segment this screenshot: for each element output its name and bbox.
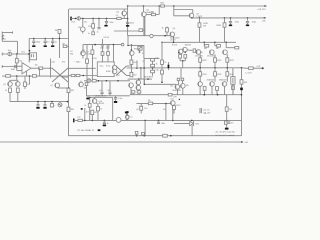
transistor Q20 <box>129 83 134 88</box>
svg-text:Q3: Q3 <box>117 75 120 77</box>
resistor R56 <box>140 106 143 110</box>
resistor R28a <box>179 55 182 59</box>
wire v1451 <box>144 120 146 135</box>
node bl3 <box>104 120 106 122</box>
svg-text:1N4148: 1N4148 <box>62 77 69 79</box>
wire bias top <box>128 44 144 46</box>
node b2 <box>28 53 30 55</box>
wire q6 down <box>191 17 193 19</box>
capacitor C11 <box>14 65 16 68</box>
transistor Q10 driver <box>178 49 183 54</box>
wire v15 riser <box>102 39 104 45</box>
capacitor C22 <box>103 120 105 121</box>
wire opamp feed <box>68 67 96 69</box>
wire mid rail <box>127 67 182 69</box>
wire drvb5 <box>182 88 184 95</box>
resistor R43 <box>181 78 184 81</box>
node bl2 <box>92 120 94 122</box>
resistor R12 <box>107 52 110 56</box>
ground gnd2 <box>127 24 129 25</box>
node o2 <box>214 42 216 44</box>
svg-text:0R22: 0R22 <box>217 74 221 76</box>
wire xdiff stub2 <box>116 66 127 76</box>
svg-text:-VE +VE: -VE +VE <box>203 112 211 114</box>
wire op drop <box>50 59 52 78</box>
svg-text:1k: 1k <box>84 105 86 107</box>
transistor Q7 <box>112 65 117 70</box>
svg-text:100n: 100n <box>110 22 114 24</box>
wire pe2 <box>214 68 216 72</box>
wire q25 col <box>89 98 91 121</box>
capacitor C27c <box>125 115 128 117</box>
capacitor C27 blob <box>126 111 128 113</box>
wire q8 down <box>173 37 175 43</box>
transistor Q6 servo <box>189 13 194 18</box>
wire r12 d <box>107 55 109 62</box>
wire rb col <box>226 95 228 128</box>
svg-text:1n: 1n <box>55 41 57 43</box>
node blr <box>226 120 228 122</box>
svg-text:C2073: C2073 <box>175 105 180 107</box>
wire mid bus <box>84 80 130 82</box>
transistor Q12 <box>196 50 201 55</box>
svg-text:2k2: 2k2 <box>134 74 137 76</box>
wire pb1 <box>204 86 206 88</box>
wire ob2 <box>214 42 216 46</box>
node r65n <box>59 38 61 40</box>
svg-text:1k: 1k <box>164 62 166 64</box>
node h1 <box>33 38 35 40</box>
wire r17 stub <box>166 32 168 36</box>
svg-text:1n: 1n <box>47 41 49 43</box>
node gb1 <box>37 101 39 103</box>
svg-text:+VE: +VE <box>262 20 267 22</box>
capacitor C7 <box>32 40 35 42</box>
capacitor C1 series <box>77 17 80 20</box>
resistor R27 <box>161 70 164 74</box>
component X2 <box>92 32 95 35</box>
resistor R17 <box>166 28 169 32</box>
resistor R1 series bead <box>117 17 121 19</box>
wire j1 top <box>5 32 13 34</box>
resistor R54 <box>91 110 94 114</box>
node bl4 <box>144 120 146 122</box>
svg-text:1n: 1n <box>88 33 90 35</box>
resistor R22 <box>151 70 155 73</box>
node mr2 <box>140 67 142 69</box>
wire r2 drop2 <box>92 28 94 31</box>
wire cm out <box>144 83 176 85</box>
wire servo left <box>173 6 175 16</box>
terminal bal+ <box>1 53 3 56</box>
svg-text:2u2: 2u2 <box>77 117 80 119</box>
wire opamp in <box>43 67 51 69</box>
wire lcol <box>86 45 88 83</box>
wire gnd bus <box>86 95 130 97</box>
node biasr <box>127 45 128 46</box>
resistor R20 <box>151 59 155 62</box>
wire gb c1 <box>37 102 39 105</box>
node in2 <box>82 18 84 20</box>
capacitor C5 <box>229 20 232 22</box>
wire gnd bus2 <box>10 101 68 103</box>
transistor Q18 <box>175 85 180 90</box>
wire c3 drop <box>106 18 108 21</box>
svg-text:1W: 1W <box>203 26 206 28</box>
resistor R33 <box>214 58 217 62</box>
wire h33 drop <box>165 104 167 121</box>
wire bias bottom <box>130 54 132 56</box>
wire v845 <box>84 108 86 120</box>
resistor Rm1 <box>131 91 135 93</box>
svg-text:100n: 100n <box>235 22 239 24</box>
transistor Q13 <box>210 50 215 55</box>
wire oe1 <box>199 54 201 58</box>
wire drvb <box>180 68 182 78</box>
wire hc2 <box>44 39 46 41</box>
wire cm stub2 <box>130 88 132 95</box>
wire r11 d <box>102 55 104 62</box>
node cs1 <box>16 75 18 77</box>
svg-text:0R22: 0R22 <box>229 60 233 62</box>
node or4 <box>241 67 243 69</box>
capacitor C10 electrolytic <box>8 52 12 56</box>
resistor R51 <box>97 107 100 111</box>
svg-text:10u: 10u <box>129 116 132 118</box>
transistor Q4 mute <box>122 11 127 16</box>
capacitor C9 <box>51 40 54 42</box>
svg-text:MJ2955: MJ2955 <box>185 45 191 47</box>
wire cd2 drop <box>247 18 249 21</box>
svg-text:1k5: 1k5 <box>144 108 147 110</box>
node y357a <box>164 35 166 37</box>
wire cs drop <box>16 76 18 80</box>
wire drv base out <box>187 49 192 51</box>
capacitor C23 <box>158 120 160 121</box>
svg-text:MJE15030: MJE15030 <box>170 37 179 39</box>
potentiometer VR3 <box>116 118 121 123</box>
resistor R60 <box>135 131 138 134</box>
node x162a <box>161 42 162 43</box>
capacitor C17 tant <box>168 65 170 69</box>
svg-text:Q9: Q9 <box>173 28 176 30</box>
node bias2 <box>131 49 133 51</box>
svg-text:0R22: 0R22 <box>217 60 221 62</box>
wire y31 line <box>114 30 139 32</box>
wire fb row top <box>144 57 159 59</box>
wire rd2b <box>224 27 226 42</box>
svg-text:+Vo +Vee (For clarity the): +Vo +Vee (For clarity the) <box>215 131 235 134</box>
node in6 <box>127 18 129 20</box>
connector J1 input <box>1 32 3 42</box>
wire pc1 <box>199 86 201 94</box>
wire lcol2 <box>86 86 88 96</box>
wire drv join <box>179 58 181 61</box>
wire -ve rail <box>130 94 242 96</box>
resistor R18 <box>130 60 133 64</box>
wire vcc dec line <box>192 17 266 19</box>
wire drv down <box>182 61 184 68</box>
node in1 <box>75 18 77 20</box>
node bb2 <box>144 135 146 137</box>
resistor R28c <box>193 49 196 52</box>
diode D3 <box>139 50 141 52</box>
resistor R34 <box>226 58 229 62</box>
resistor R53 series <box>78 119 82 121</box>
resistor R6 <box>223 23 226 27</box>
wire drv base out2 <box>196 50 198 52</box>
capacitor C14 elco <box>87 79 91 83</box>
wire drv rail <box>162 41 236 43</box>
wire drvb3 <box>181 81 183 84</box>
capacitor C4 <box>126 21 129 23</box>
svg-text:100u: 100u <box>76 61 80 63</box>
wire r64 stub <box>67 45 69 47</box>
wire j1 bottom <box>2 40 17 42</box>
wire inner box v <box>191 125 193 136</box>
wire y357 line <box>128 35 171 37</box>
node fbm <box>143 67 145 69</box>
resistor R26 <box>161 60 164 64</box>
node gb4 <box>67 101 69 103</box>
svg-text:C3503: C3503 <box>170 40 176 42</box>
wire cs foot1 <box>9 92 11 101</box>
terminal -ve <box>241 141 243 143</box>
transistor Q8 vas <box>170 32 175 37</box>
capacitor C15 <box>100 91 103 93</box>
wire blob81 <box>81 108 83 110</box>
wire u2 fb <box>39 68 41 76</box>
transistor Q15 <box>198 82 203 87</box>
wire v1274 <box>126 111 128 120</box>
resistor R8 <box>39 67 43 70</box>
resistor R3 <box>151 13 155 15</box>
svg-text:2k2: 2k2 <box>84 22 87 24</box>
svg-text:10k: 10k <box>229 109 232 111</box>
trimmer VR2 <box>138 46 142 50</box>
wire c17 stub <box>167 62 169 65</box>
node h2 <box>44 38 46 40</box>
resistor R47 <box>16 88 19 92</box>
resistor R7 <box>15 59 18 63</box>
svg-text:22k: 22k <box>52 61 55 63</box>
node x162b <box>161 81 163 83</box>
node bl1 <box>84 120 86 122</box>
svg-text:Q4: Q4 <box>116 12 119 14</box>
transistor Q2 diff <box>79 82 84 87</box>
wire servo right <box>192 10 194 14</box>
wire ccs top <box>2 75 68 77</box>
wire v15 left drop2 <box>91 54 93 81</box>
wire c12 v <box>102 44 104 46</box>
resistor R16 <box>139 29 143 32</box>
wire pc3 <box>224 86 226 94</box>
node opg <box>68 87 70 89</box>
resistor R61 <box>142 132 145 135</box>
ground gnd3 <box>230 23 232 25</box>
resistor R11 <box>101 52 104 56</box>
capacitor C12 <box>101 44 104 46</box>
svg-text:220u: 220u <box>252 22 256 24</box>
svg-text:10k: 10k <box>35 64 38 66</box>
node t3 <box>173 5 175 7</box>
svg-text:47u: 47u <box>99 90 102 92</box>
svg-text:100n: 100n <box>161 123 165 125</box>
wire servo top <box>174 9 193 11</box>
node bb3 <box>170 135 172 137</box>
wire bias col <box>130 45 132 77</box>
wire q27 stub <box>173 110 175 114</box>
wire x1 <box>52 68 68 82</box>
capacitor C19 <box>44 104 47 106</box>
wire q2 up <box>80 81 82 82</box>
resistor R55 <box>148 102 152 105</box>
resistor R62 <box>126 116 129 119</box>
node mr1 <box>136 67 138 69</box>
node in4 <box>98 18 100 20</box>
node gb3 <box>51 101 53 103</box>
wire rd1 <box>199 18 201 23</box>
wire output rail <box>181 67 242 69</box>
node q27n <box>179 99 180 100</box>
wire oe3 <box>226 54 228 57</box>
svg-text:10k: 10k <box>84 87 87 89</box>
node in5 <box>106 18 108 20</box>
wire x1127 <box>112 98 114 121</box>
resistor R57 <box>173 106 176 110</box>
wire tri line <box>174 123 189 125</box>
inductor L3 parallel <box>231 77 235 85</box>
svg-text:100R: 100R <box>216 25 221 27</box>
node in3 <box>92 18 94 20</box>
node q25a <box>89 97 91 99</box>
wire cm out v <box>143 79 145 84</box>
svg-text:22k: 22k <box>19 61 22 63</box>
component TH1 sensor <box>150 34 153 37</box>
wire b1 drop2 <box>16 63 18 71</box>
resistor R51b <box>88 103 91 107</box>
svg-text:1n: 1n <box>97 32 99 34</box>
wire preamp box top edge <box>69 8 128 10</box>
svg-text:+15V: +15V <box>92 58 97 60</box>
wire v15 line <box>83 44 122 46</box>
node dr1 <box>82 75 84 77</box>
wire q2 stubs <box>82 45 84 51</box>
svg-text:(F): (F) <box>136 109 139 111</box>
svg-text:100n: 100n <box>118 98 122 100</box>
resistor R59 <box>240 80 243 84</box>
transistor Q17 <box>222 82 227 87</box>
svg-text:GND: GND <box>11 69 16 71</box>
svg-text:22k: 22k <box>88 26 91 28</box>
ground gnd4 <box>247 23 249 25</box>
resistor R13 <box>86 59 89 63</box>
node cs2 <box>29 75 31 77</box>
wire servo bottom <box>174 15 190 17</box>
wire bl2 up <box>91 115 93 121</box>
wire cm1 <box>101 81 103 92</box>
node d3 <box>230 17 232 19</box>
resistor R44 series <box>6 75 11 78</box>
wire c4 drop <box>127 18 129 21</box>
wire hc3 <box>52 39 54 41</box>
node dr_d <box>182 60 184 62</box>
wire bias riser <box>127 36 129 46</box>
wire r16 stub <box>143 29 145 31</box>
node rv1 <box>241 94 243 96</box>
node bb1 <box>136 135 138 137</box>
wire diode row <box>68 75 97 77</box>
node n2 <box>217 94 219 96</box>
transistor Q2 input <box>81 51 86 56</box>
diode D1 <box>71 74 75 76</box>
terminal vcc arrow <box>264 17 266 19</box>
wire relay drop <box>28 39 30 63</box>
terminal v15 end <box>121 43 124 46</box>
svg-text:15k: 15k <box>27 84 30 86</box>
transistor Q27 <box>171 101 176 106</box>
wire bottom line <box>74 119 242 121</box>
wire rd2 <box>224 18 226 23</box>
capacitor C27b blob <box>125 112 128 114</box>
capacitor C20 elco <box>51 103 54 107</box>
svg-text:+Vo -Vo: +Vo -Vo <box>203 109 209 111</box>
wire x2 <box>52 68 68 82</box>
wire c13 v <box>107 46 109 52</box>
wire base link <box>146 14 159 16</box>
wire preamp box left edge <box>68 9 70 136</box>
wire riser input column <box>127 6 129 36</box>
resistor R41 series <box>168 93 172 96</box>
wire ob1 <box>203 42 205 46</box>
resistor R65 <box>58 29 61 33</box>
wire cs r <box>29 76 31 84</box>
node rail-riser junction <box>127 5 129 7</box>
svg-text:2k2: 2k2 <box>134 62 137 64</box>
capacitor C8 <box>44 40 47 42</box>
node bl7 <box>191 120 193 122</box>
resistor R29 <box>205 45 209 48</box>
resistor R14 <box>85 83 88 86</box>
svg-text:4k7: 4k7 <box>86 112 89 114</box>
node or3 <box>227 67 229 69</box>
potentiometer VR1 <box>81 27 86 32</box>
svg-text:4R7: 4R7 <box>204 48 207 50</box>
transistor Q5 <box>142 12 147 17</box>
wire drvb2 <box>177 81 179 85</box>
node d4 <box>247 17 249 19</box>
svg-text:47u: 47u <box>107 90 110 92</box>
wire cs branch <box>10 79 17 81</box>
node m1 <box>98 80 100 82</box>
transistor Q11 driver <box>183 47 188 52</box>
resistor R39 <box>216 87 219 91</box>
node relay contact <box>29 50 31 52</box>
wire v15 to opamp <box>113 45 115 62</box>
transistor Q22 <box>136 85 141 90</box>
wire oe2 <box>214 54 216 57</box>
svg-text:Q15: Q15 <box>170 99 173 101</box>
wire bias right col <box>143 45 145 58</box>
svg-text:1k: 1k <box>5 90 7 92</box>
svg-text:1k: 1k <box>100 109 102 111</box>
node d1 <box>199 17 201 19</box>
resistor R2 <box>92 24 95 28</box>
relay RL1 <box>30 53 37 60</box>
wire bal- line <box>5 65 22 67</box>
wire q5 emitter col <box>143 17 145 36</box>
terminal +VE arrow <box>264 5 267 7</box>
